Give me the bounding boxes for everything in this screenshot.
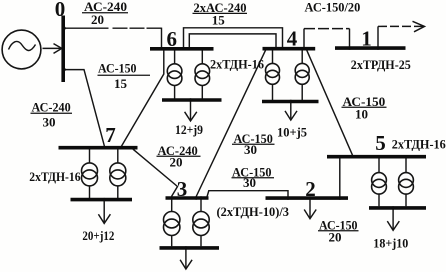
svg-text:2хТРДН-25: 2хТРДН-25 [351,57,411,72]
svg-text:30: 30 [243,175,256,190]
svg-text:5: 5 [375,131,386,155]
svg-text:18+j10: 18+j10 [373,235,408,250]
svg-text:30: 30 [43,115,56,130]
svg-text:0: 0 [55,0,66,21]
svg-text:2хТДН-16: 2хТДН-16 [210,57,264,72]
svg-text:АС-150/20: АС-150/20 [305,0,361,15]
svg-text:20: 20 [91,12,104,27]
svg-text:2хТДН-16: 2хТДН-16 [392,136,446,151]
svg-text:АС-150: АС-150 [98,60,137,75]
svg-text:АС-240: АС-240 [32,99,71,114]
svg-text:20: 20 [329,229,342,244]
svg-text:(2хТДН-10)/3: (2хТДН-10)/3 [217,204,290,219]
svg-text:30: 30 [244,142,257,157]
svg-text:10: 10 [355,107,368,122]
svg-text:20: 20 [170,154,183,169]
svg-text:7: 7 [105,123,116,147]
svg-text:3: 3 [177,177,188,201]
svg-text:1: 1 [361,27,372,51]
svg-text:15: 15 [114,76,128,91]
svg-text:20+j12: 20+j12 [82,228,114,243]
svg-text:12+j9: 12+j9 [175,122,203,137]
svg-text:2хТДН-16: 2хТДН-16 [29,169,81,184]
svg-text:10+j5: 10+j5 [277,125,307,140]
svg-text:15: 15 [212,12,226,27]
svg-text:4: 4 [287,27,298,51]
